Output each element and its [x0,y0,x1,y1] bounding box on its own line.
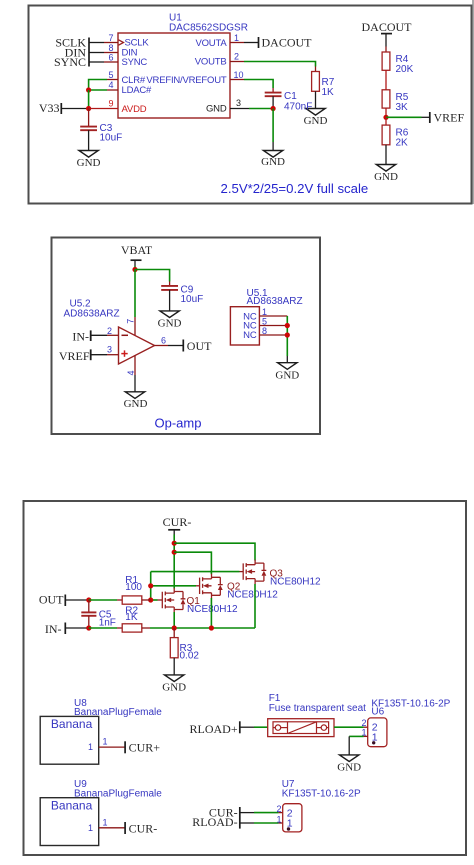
resistor R1 [117,575,151,604]
junction C5 bottom [86,625,91,630]
wire DIN to pin8 [89,52,118,54]
svg-text:1: 1 [276,814,281,824]
ground below pin3 [261,151,285,169]
svg-text:100: 100 [125,582,142,593]
svg-text:RLOAD+: RLOAD+ [189,722,237,736]
wire LDAC# pin4 [89,89,118,91]
wire R6 to ground [385,145,387,165]
net label CUR- top [163,515,192,530]
wire R3 to ground [173,658,175,675]
op-amp U1 (DAC) body [108,13,247,119]
capacitor C1 [265,88,313,113]
wire to R2 [89,627,117,629]
svg-text:2: 2 [276,804,281,814]
svg-text:CUR-: CUR- [129,821,158,835]
op-amp U5.2 [64,298,169,375]
wire junction to R6 [385,117,387,125]
wire pin4 to ground [134,375,136,392]
capacitor C5 [81,600,116,628]
wire to R1 [89,599,117,601]
net label CUR+ [125,741,160,755]
svg-text:3K: 3K [396,102,409,113]
net label IN- bottom [45,622,65,636]
svg-text:5: 5 [262,316,267,326]
resistor R4 [382,47,414,76]
svg-text:VBAT: VBAT [121,243,153,257]
ground below U5.1 [275,363,299,382]
resistor R7 [312,67,335,99]
svg-text:1: 1 [262,307,267,317]
svg-text:GND: GND [275,369,299,381]
transistor Q1 [162,588,238,615]
connector U6 [361,698,450,746]
net label OUT [39,593,65,607]
section frame: DAC [29,6,472,204]
junction VREF node [383,115,388,120]
svg-text:6: 6 [161,335,166,345]
wire GND pin3 [230,108,273,110]
svg-text:DACOUT: DACOUT [262,36,313,50]
wire VREF to pin3 [91,354,107,356]
svg-text:4: 4 [126,370,136,375]
svg-text:0.02: 0.02 [180,650,200,661]
svg-text:AVDD: AVDD [122,104,147,115]
svg-text:KF135T-10.16-2P: KF135T-10.16-2P [282,789,361,800]
svg-text:GND: GND [337,761,361,773]
svg-text:Op-amp: Op-amp [155,415,202,430]
wire R4 to R5 [385,70,387,90]
svg-text:2: 2 [107,326,112,336]
ground below R7 [304,109,328,128]
wire SYNC to pin6 [89,61,118,63]
svg-text:470nF: 470nF [284,102,312,113]
svg-text:2.5V*2/25=0.2V full scale: 2.5V*2/25=0.2V full scale [221,181,369,196]
wire IN- to pin2 [91,334,107,336]
wire junction down to ground [272,109,274,151]
svg-text:GND: GND [261,156,285,168]
net label DIN [65,45,87,59]
svg-text:DACOUT: DACOUT [362,20,413,34]
wire V33 to junction [61,108,88,110]
capacitor C3 [80,109,122,144]
svg-text:AD8638ARZ: AD8638ARZ [247,296,303,307]
svg-text:1K: 1K [322,87,335,98]
svg-text:Fuse transparent seat: Fuse transparent seat [269,703,366,714]
wire Q1 gate [151,599,163,601]
wire VOUTB pin2 to R7 [230,62,316,67]
svg-text:20K: 20K [396,64,414,75]
wire Q2 source down [210,598,212,628]
section frame: power stage [24,501,467,855]
svg-text:2: 2 [234,52,239,62]
svg-text:GND: GND [304,115,328,127]
svg-text:C1: C1 [284,91,297,102]
connector U8 banana plug [40,698,162,764]
transistor Q3 [243,560,321,588]
wire U6 pin1 to ground [349,736,368,755]
net label OUT mid [183,339,212,353]
net label VREF mid [59,349,90,363]
transistor Q2 [200,574,279,601]
svg-text:RLOAD-: RLOAD- [192,815,237,829]
svg-text:VREF: VREF [434,110,465,124]
junction VBAT node [132,267,137,272]
svg-text:1: 1 [234,33,239,43]
svg-text:VOUTA: VOUTA [195,38,227,49]
svg-text:8: 8 [262,326,267,336]
port bar CUR-/RLOAD- [239,807,241,829]
wire C9 to ground [169,290,171,311]
wire C1 to junction [272,96,274,108]
wire VOUTA pin1 [230,42,259,44]
svg-text:8: 8 [108,43,113,53]
net label CUR- bottom left [125,821,157,835]
resistor R2 [117,605,150,632]
svg-text:7: 7 [108,33,113,43]
ground below U6 [337,755,361,774]
wire source rail [150,627,255,629]
resistor R6 [382,125,409,148]
net label RLOAD+ [189,721,239,736]
svg-text:10uF: 10uF [181,294,204,305]
net label VBAT [121,243,153,260]
junction CUR- node A [172,541,177,546]
svg-text:IN-: IN- [72,329,89,343]
junction CUR- node B [172,550,177,555]
port bar IN- [90,330,92,341]
svg-text:NC: NC [243,330,257,341]
svg-text:V33: V33 [39,101,60,115]
svg-text:OUT: OUT [39,593,64,607]
junction NC pin8 [285,332,290,337]
net label CUR- right [209,805,238,819]
capacitor C9 [161,282,203,305]
resistor R3 [170,628,199,661]
wire VREFIN pin10 to C1 [230,80,273,89]
wire VBAT to C9 [135,270,170,282]
net label DACOUT right of U1 [259,36,313,50]
wire IN- to C5 [65,627,89,629]
junction V33 node [86,106,91,111]
svg-text:VREF: VREF [59,349,90,363]
junction gate rail Q1 [148,597,153,602]
wire gate rail vertical [150,572,152,600]
svg-text:DAC8562SDGSR: DAC8562SDGSR [169,23,248,34]
wire Q3 source down [254,584,256,628]
svg-text:Banana: Banana [51,799,93,813]
svg-text:GND: GND [158,317,182,329]
wire pin6 to OUT [168,345,183,347]
svg-text:GND: GND [124,398,148,410]
ground below op-amp [124,392,148,410]
svg-text:SYNC: SYNC [122,57,148,68]
wire CUR- to U7 pin2 [240,812,283,814]
net label V33 [39,101,61,115]
wire R7 to ground [315,91,317,108]
wire Q2 gate [151,585,200,587]
svg-text:2: 2 [361,718,366,728]
svg-text:2K: 2K [396,138,409,149]
net label DACOUT top right [362,20,413,34]
junction LDAC node [86,87,91,92]
connector U7 [276,779,360,832]
net label SYNC [54,55,86,69]
svg-text:SYNC: SYNC [54,55,86,69]
svg-text:3: 3 [107,344,112,354]
net label VREF [430,110,465,124]
ground below C3 [77,151,101,170]
junction rail Q2 [209,625,214,630]
svg-text:CUR+: CUR+ [129,741,161,755]
svg-text:4: 4 [108,80,113,90]
connector U9 banana plug [40,779,162,845]
svg-text:NCE80H12: NCE80H12 [227,590,278,601]
wire V33 vertical [88,90,90,109]
wire C3 to ground [88,130,90,150]
ground below R6 [374,165,398,184]
wire RLOAD+ to fuse [240,726,268,728]
wire to Q2 drain [174,552,211,574]
port bar VREF [90,349,92,360]
junction pin3/C1 [271,106,276,111]
svg-text:1: 1 [103,818,108,828]
fuse F1 [268,693,366,736]
wire OUT to C5 [65,599,89,601]
junction rail Q1 [172,625,177,630]
svg-text:1: 1 [88,823,93,833]
ground below R3 [162,675,186,694]
port bar SCLK/DIN/SYNC [88,38,90,67]
svg-text:CUR-: CUR- [163,515,192,529]
wire CUR- down to Q1 drain [173,530,175,589]
svg-text:10uF: 10uF [100,133,123,144]
svg-text:GND: GND [374,171,398,183]
wire to Q3 drain [174,543,255,560]
wire CLR# pin5 [89,80,118,91]
wire R5 to junction [385,108,387,117]
junction C5 top [86,597,91,602]
wire junction to VREF port [386,116,430,118]
svg-text:LDAC#: LDAC# [122,85,153,96]
resistor R5 [382,90,409,113]
wire RLOAD- to U7 pin1 [240,822,283,824]
op-amp U5.1 NC block [230,288,302,345]
svg-text:6: 6 [108,53,113,63]
note full scale [221,181,369,196]
wire Q1 source down [173,612,175,628]
svg-text:GND: GND [206,104,227,115]
wire AVDD pin9 [89,108,118,110]
svg-text:GND: GND [162,681,186,693]
svg-text:1: 1 [88,742,93,752]
junction gate rail Q2 [148,583,153,588]
svg-text:1nF: 1nF [99,617,116,628]
svg-text:GND: GND [77,157,101,169]
wire Q3 gate [151,571,244,573]
svg-text:5: 5 [108,70,113,80]
svg-text:NCE80H12: NCE80H12 [187,604,238,615]
net label SCLK [55,35,86,49]
svg-text:7: 7 [126,319,136,324]
svg-text:9: 9 [108,99,113,109]
wire VBAT down [134,260,136,269]
svg-text:10: 10 [234,70,244,80]
net label RLOAD- [192,815,237,829]
wire DACOUT to R4 [385,34,387,47]
wire fuse to U6 pin2 [334,726,368,728]
svg-text:3: 3 [236,98,241,108]
svg-text:IN-: IN- [45,622,62,636]
wire SCLK to pin7 [89,42,118,44]
section frame: op-amp [52,238,321,435]
svg-text:AD8638ARZ: AD8638ARZ [64,308,120,319]
svg-text:VREFIN/VREFOUT: VREFIN/VREFOUT [146,75,226,86]
svg-text:VOUTB: VOUTB [195,56,227,67]
note Op-amp [155,415,202,430]
wire NC bus vertical [286,316,288,363]
svg-text:NCE80H12: NCE80H12 [270,577,321,588]
net label IN- [72,329,89,343]
ground below C9 [158,311,182,329]
page edge gray strip top-right [472,0,474,204]
junction NC pin5 [285,323,290,328]
wire VBAT to op-amp pin7 [134,270,136,318]
svg-text:1K: 1K [125,612,138,623]
svg-text:OUT: OUT [187,339,212,353]
svg-text:1: 1 [103,736,108,746]
svg-text:U6: U6 [371,707,384,718]
svg-text:Banana: Banana [51,717,93,731]
